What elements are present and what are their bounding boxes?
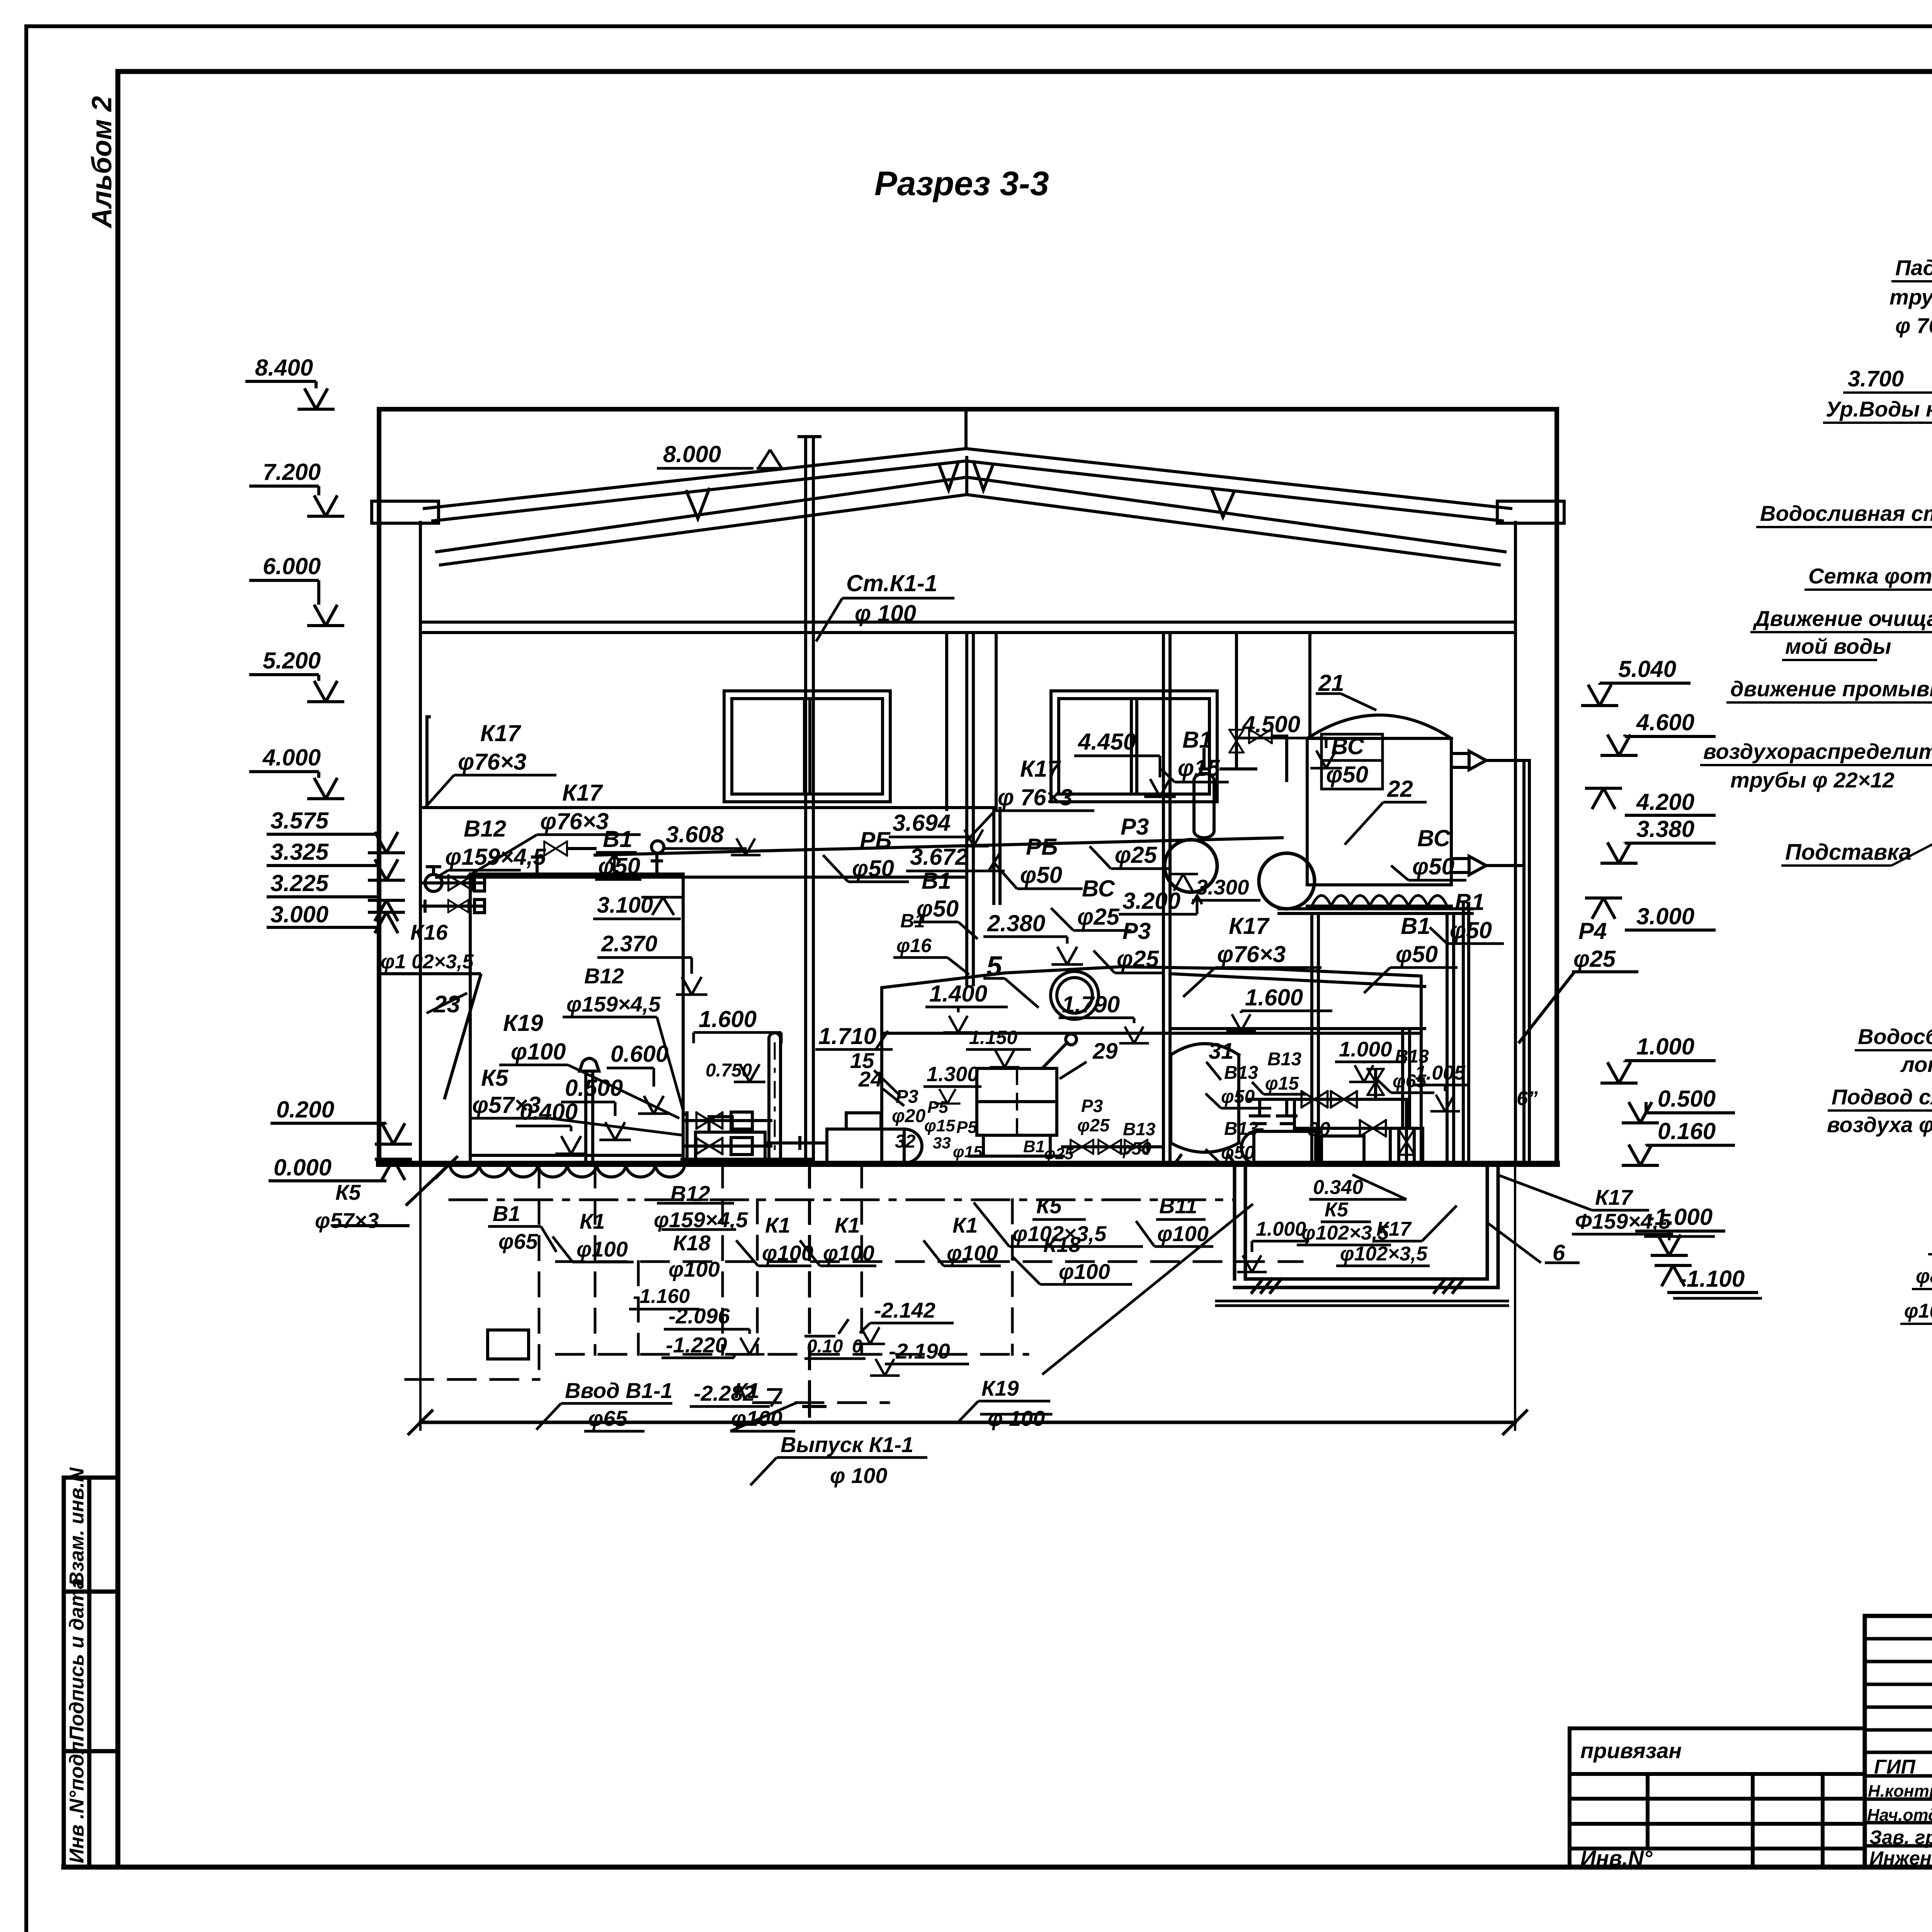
svg-text:воздухораспределительные: воздухораспределительные: [1703, 739, 1932, 764]
svg-text:0.500: 0.500: [1658, 1086, 1716, 1112]
svg-text:φ100: φ100: [1059, 1259, 1110, 1284]
svg-text:5.040: 5.040: [1618, 656, 1676, 682]
svg-text:Сетка φотв.0,5мм: Сетка φотв.0,5мм: [1808, 564, 1932, 588]
svg-text:В1: В1: [1455, 889, 1485, 915]
svg-text:7.200: 7.200: [263, 459, 321, 485]
tank 5 flotation unit: [882, 967, 1421, 1164]
svg-text:К17: К17: [1376, 1218, 1412, 1240]
svg-text:К17: К17: [1020, 756, 1061, 782]
svg-text:3.608: 3.608: [666, 821, 724, 847]
svg-text:-2.142: -2.142: [874, 1298, 935, 1322]
svg-text:В1: В1: [1023, 1137, 1045, 1156]
svg-text:φ25: φ25: [1573, 946, 1616, 972]
svg-text:φ50: φ50: [1119, 1138, 1151, 1158]
svg-text:Водосливная стенка: Водосливная стенка: [1760, 501, 1932, 526]
partition wall center: [967, 633, 973, 985]
box 6 small: [1390, 1128, 1423, 1164]
svg-text:φ100: φ100: [823, 1241, 874, 1265]
main title table outline: [1865, 1616, 1932, 1867]
svg-text:24: 24: [858, 1067, 883, 1091]
pump 30: [1254, 1131, 1316, 1164]
svg-text:Инв .N°подл.: Инв .N°подл.: [66, 1736, 88, 1863]
pump unit left (15/24): [696, 1132, 765, 1159]
svg-text:0.000: 0.000: [274, 1155, 332, 1180]
svg-text:φ65: φ65: [498, 1229, 538, 1253]
svg-text:воздуха φ 57×2,0: воздуха φ 57×2,0: [1827, 1112, 1932, 1137]
B1 pipe: [437, 876, 967, 879]
svg-text:К5: К5: [1325, 1199, 1349, 1221]
svg-text:φ15: φ15: [1265, 1073, 1299, 1094]
svg-text:1.400: 1.400: [929, 981, 987, 1007]
svg-text:0.750: 0.750: [706, 1060, 752, 1081]
svg-text:3.672: 3.672: [910, 844, 968, 870]
svg-text:1.150: 1.150: [969, 1027, 1017, 1048]
svg-text:Р3: Р3: [1081, 1096, 1103, 1116]
left wall valves cluster: [422, 883, 483, 906]
svg-text:В13: В13: [1267, 1049, 1301, 1070]
svg-text:φ 76×3: φ 76×3: [1895, 313, 1932, 338]
svg-text:30: 30: [1308, 1118, 1330, 1141]
svg-text:22: 22: [1387, 776, 1413, 802]
svg-text:φ25: φ25: [1115, 842, 1158, 868]
svg-text:-2.096: -2.096: [668, 1304, 730, 1328]
left stamp strip cells: [64, 1478, 118, 1867]
inner frame top: [118, 69, 1932, 74]
svg-text:φ15: φ15: [1178, 755, 1221, 781]
svg-text:φ50: φ50: [1412, 854, 1454, 879]
svg-text:6”: 6”: [1517, 1087, 1538, 1110]
svg-text:φ100: φ100: [511, 1039, 566, 1065]
svg-text:φ 100: φ 100: [830, 1463, 887, 1488]
svg-text:Р5: Р5: [956, 1118, 977, 1137]
svg-text:3.700: 3.700: [1848, 366, 1904, 391]
svg-text:движение промывной воды: движение промывной воды: [1730, 677, 1932, 701]
floor: [379, 1161, 1557, 1167]
svg-text:φ 76×3: φ 76×3: [998, 784, 1073, 810]
window left: [724, 691, 890, 802]
svg-text:φ50: φ50: [1396, 941, 1438, 967]
svg-text:φ15: φ15: [953, 1143, 983, 1161]
svg-text:φ57×3: φ57×3: [472, 1092, 541, 1118]
stack St.K1-1 pipe: [799, 437, 820, 1164]
tank 23: [470, 874, 683, 1164]
svg-text:φ20: φ20: [892, 1106, 925, 1126]
svg-text:-2.190: -2.190: [889, 1339, 950, 1363]
svg-text:К17: К17: [1595, 1185, 1634, 1209]
eaves cornice left: [372, 501, 439, 523]
svg-text:К1: К1: [835, 1213, 860, 1237]
svg-text:К1: К1: [952, 1213, 978, 1237]
roof beam (ferma) chords: [437, 477, 1505, 552]
svg-text:φ25: φ25: [1117, 946, 1160, 972]
svg-text:Р4: Р4: [1578, 918, 1607, 944]
svg-text:φ50: φ50: [1221, 1087, 1255, 1107]
svg-text:0.10: 0.10: [807, 1336, 843, 1357]
K17 pipe horizontal: [420, 808, 1000, 903]
fragment labels: [1827, 959, 1932, 1322]
svg-text:ГИП: ГИП: [1874, 1756, 1916, 1778]
underground room right: [1235, 1165, 1498, 1287]
4-4 left labels: [1703, 255, 1932, 865]
svg-text:3.325: 3.325: [270, 839, 329, 865]
pilaster right: [1463, 903, 1469, 1164]
svg-text:φ100: φ100: [762, 1241, 813, 1265]
name rows: [1865, 1776, 1932, 1846]
inner frame bottom: [64, 1865, 1932, 1870]
svg-text:К19: К19: [503, 1010, 543, 1036]
svg-text:Р3: Р3: [1121, 814, 1149, 840]
svg-text:РБ: РБ: [860, 827, 892, 853]
svg-text:-1.220: -1.220: [666, 1333, 727, 1357]
svg-text:0.160: 0.160: [1658, 1118, 1716, 1144]
RB sloped pipe: [595, 838, 1282, 855]
building top line: [379, 407, 1557, 412]
svg-text:φ50: φ50: [1450, 917, 1492, 943]
svg-text:Движение очищае-: Движение очищае-: [1753, 606, 1932, 631]
svg-text:К1: К1: [765, 1213, 791, 1237]
svg-text:К1: К1: [580, 1209, 605, 1233]
svg-text:В13: В13: [1224, 1063, 1258, 1083]
svg-text:φ1 02×3,5: φ1 02×3,5: [381, 951, 474, 973]
bottom dimension line: [420, 1164, 1515, 1430]
svg-text:2.370: 2.370: [601, 931, 657, 956]
ground coil hatch left: [450, 1164, 685, 1177]
svg-text:φ102×2,8: φ102×2,8: [1904, 1300, 1932, 1322]
interior columns: [947, 633, 996, 810]
svg-text:К5: К5: [335, 1180, 361, 1204]
small vessel: [1194, 774, 1214, 838]
svg-text:В12: В12: [584, 964, 624, 988]
tank 21 stand: [1279, 909, 1472, 1164]
svg-text:φ 100: φ 100: [855, 600, 916, 626]
svg-text:3.694: 3.694: [893, 810, 951, 836]
B12 riser: [580, 1058, 599, 1164]
svg-text:φ100: φ100: [577, 1237, 628, 1261]
svg-text:φ100: φ100: [1157, 1221, 1209, 1246]
privyazan box: [1570, 1728, 1865, 1867]
svg-text:ВС: ВС: [1331, 733, 1365, 759]
standpipe with cap: [769, 1033, 781, 1164]
svg-text:2.380: 2.380: [987, 910, 1045, 936]
partition wall right room: [1163, 633, 1170, 1164]
vessel 31: [1171, 1044, 1239, 1152]
svg-text:В12: В12: [464, 816, 506, 842]
svg-text:Инжен.: Инжен.: [1869, 1847, 1932, 1869]
svg-text:3.300: 3.300: [1196, 875, 1249, 899]
svg-text:Разрез 3-3: Разрез 3-3: [874, 164, 1049, 202]
svg-text:К1: К1: [734, 1378, 760, 1403]
svg-text:33: 33: [933, 1134, 951, 1152]
svg-text:Подвод сжатого: Подвод сжатого: [1832, 1085, 1932, 1109]
svg-text:1.005: 1.005: [1415, 1062, 1466, 1084]
underground labels: [493, 964, 1671, 1488]
svg-text:мой воды: мой воды: [1785, 634, 1891, 658]
svg-text:φ16: φ16: [896, 935, 932, 956]
svg-text:4.500: 4.500: [1242, 711, 1300, 737]
svg-text:В13: В13: [1123, 1119, 1156, 1139]
svg-text:Выпуск К1-1: Выпуск К1-1: [781, 1432, 913, 1457]
svg-text:Ф159×4,5: Ф159×4,5: [1575, 1209, 1671, 1233]
truss hangers: [687, 489, 709, 519]
svg-text:5.200: 5.200: [263, 648, 321, 673]
svg-text:φ76×3: φ76×3: [1217, 941, 1286, 967]
svg-text:Ввод В1-1: Ввод В1-1: [565, 1378, 673, 1403]
eaves cornice right: [1497, 501, 1564, 523]
svg-text:привязан: привязан: [1580, 1738, 1682, 1763]
svg-text:φ89×2,8: φ89×2,8: [1916, 1265, 1932, 1287]
svg-text:Подставка: Подставка: [1785, 840, 1911, 865]
svg-text:К5: К5: [481, 1065, 509, 1091]
svg-text:φ25: φ25: [1077, 1115, 1110, 1135]
svg-text:трубопровад: трубопровад: [1889, 285, 1932, 309]
svg-text:К16: К16: [410, 920, 448, 944]
svg-text:31: 31: [1209, 1039, 1234, 1064]
svg-text:0: 0: [852, 1336, 862, 1357]
svg-text:φ25: φ25: [1044, 1145, 1074, 1163]
svg-text:Р3: Р3: [896, 1087, 918, 1107]
svg-text:Подпись и дата: Подпись и дата: [66, 1578, 88, 1741]
box 29: [977, 1068, 1057, 1135]
svg-text:φ25: φ25: [1077, 904, 1120, 930]
svg-text:4.000: 4.000: [262, 745, 321, 770]
svg-text:3.575: 3.575: [270, 808, 329, 833]
svg-text:1.600: 1.600: [699, 1006, 757, 1032]
svg-text:К18: К18: [1043, 1232, 1081, 1257]
roof lower chord: [433, 461, 1502, 521]
svg-text:К5: К5: [1036, 1194, 1062, 1218]
svg-text:К19: К19: [981, 1376, 1019, 1400]
svg-text:6.000: 6.000: [263, 553, 321, 579]
svg-text:Взам. инв.N: Взам. инв.N: [66, 1467, 88, 1586]
svg-text:К17: К17: [480, 720, 521, 746]
svg-text:В1: В1: [603, 826, 633, 852]
svg-text:4.200: 4.200: [1636, 789, 1694, 815]
narrow revision rows: [1865, 1639, 1932, 1752]
tank 21 insulation band: [1312, 896, 1447, 906]
svg-text:φ50: φ50: [852, 855, 894, 881]
svg-text:φ76×3: φ76×3: [540, 808, 609, 834]
svg-text:3.200: 3.200: [1122, 888, 1180, 914]
svg-text:32: 32: [895, 1131, 916, 1152]
svg-text:1.790: 1.790: [1062, 992, 1120, 1017]
svg-text:φ15: φ15: [924, 1116, 955, 1135]
svg-text:4.600: 4.600: [1636, 709, 1694, 735]
svg-text:В13: В13: [1224, 1119, 1258, 1139]
svg-text:φ 100: φ 100: [988, 1406, 1045, 1430]
svg-text:РБ: РБ: [1026, 834, 1058, 860]
svg-text:Н.контр.: Н.контр.: [1868, 1782, 1932, 1801]
tank nozzles and pipes: [1451, 751, 1524, 770]
valve assembly over vessel: [1221, 633, 1256, 769]
svg-text:ВС: ВС: [1417, 825, 1451, 851]
svg-text:φ57×3: φ57×3: [315, 1208, 379, 1233]
left wall: [377, 409, 381, 1164]
pressure circles: [1165, 840, 1217, 892]
svg-text:8.400: 8.400: [255, 355, 313, 381]
svg-text:-1.100: -1.100: [1679, 1266, 1745, 1292]
right wall: [1554, 409, 1559, 1164]
svg-text:Альбом 2: Альбом 2: [87, 96, 117, 229]
B13 piping cluster: [1248, 1070, 1406, 1164]
svg-text:φ65: φ65: [588, 1406, 628, 1430]
ceiling slab: [420, 622, 1515, 633]
svg-text:В1: В1: [1182, 727, 1212, 753]
svg-text:φ50: φ50: [1020, 862, 1062, 888]
svg-text:8.000: 8.000: [663, 441, 721, 467]
svg-text:3.000: 3.000: [1636, 903, 1694, 929]
svg-text:Падающий: Падающий: [1895, 255, 1932, 280]
valves row under tank5: [1063, 1145, 1161, 1148]
svg-text:0.200: 0.200: [276, 1097, 334, 1122]
svg-text:В1: В1: [493, 1201, 520, 1226]
svg-text:трубы φ 22×12: трубы φ 22×12: [1730, 768, 1895, 792]
svg-text:3.380: 3.380: [1636, 816, 1694, 842]
svg-text:1.000: 1.000: [1256, 1218, 1306, 1240]
svg-text:Зав. гр.: Зав. гр.: [1869, 1827, 1932, 1848]
svg-text:Ст.К1-1: Ст.К1-1: [846, 570, 937, 596]
window right: [1051, 691, 1217, 802]
small buried box: [488, 1330, 529, 1359]
tank 21: [1307, 715, 1451, 885]
svg-text:1.600: 1.600: [1245, 985, 1303, 1010]
inner frame left: [116, 71, 121, 1867]
svg-text:К18: К18: [673, 1231, 711, 1255]
svg-text:Инв.N°: Инв.N°: [1580, 1846, 1653, 1870]
platform line 1.600: [1170, 1027, 1425, 1030]
svg-text:Водосборный: Водосборный: [1858, 1024, 1932, 1049]
svg-text:φ100: φ100: [947, 1241, 998, 1265]
svg-text:φ50: φ50: [1221, 1143, 1255, 1163]
svg-text:Ур.Воды нижний: Ур.Воды нижний: [1826, 397, 1932, 421]
sloped pipe right room: [1170, 974, 1425, 986]
leaders / underlines for labels: [425, 450, 1504, 1164]
svg-text:4.450: 4.450: [1078, 729, 1136, 755]
svg-text:1.300: 1.300: [927, 1063, 979, 1086]
svg-text:0.340: 0.340: [1313, 1176, 1363, 1199]
svg-text:φ50: φ50: [598, 853, 640, 879]
svg-text:1.710: 1.710: [818, 1023, 876, 1049]
TITLE BLOCK: [1570, 1616, 1932, 1867]
svg-text:φ159×4,5: φ159×4,5: [445, 844, 546, 870]
underground dashed mains: [450, 1199, 1235, 1201]
svg-text:φ159×4,5: φ159×4,5: [566, 992, 661, 1016]
svg-text:В11: В11: [1159, 1194, 1197, 1218]
svg-text:3.225: 3.225: [270, 870, 329, 896]
svg-text:В1: В1: [1401, 913, 1430, 939]
svg-text:3.000: 3.000: [270, 901, 328, 927]
roof upper chord: [424, 449, 1511, 509]
svg-text:лоток: лоток: [1900, 1052, 1932, 1077]
4-4 leaders: [1700, 281, 1932, 866]
svg-text:1.000: 1.000: [1339, 1037, 1392, 1061]
svg-text:ВС: ВС: [1082, 876, 1116, 901]
apex post: [966, 409, 967, 494]
svg-text:1.000: 1.000: [1636, 1034, 1694, 1060]
svg-text:21: 21: [1318, 670, 1344, 696]
K19 leader: [981, 1205, 1252, 1414]
svg-text:φ76×3: φ76×3: [458, 749, 526, 775]
svg-text:φ50: φ50: [1326, 762, 1368, 787]
svg-text:Нач.отд.: Нач.отд.: [1867, 1806, 1932, 1825]
svg-text:0.600: 0.600: [611, 1041, 668, 1067]
svg-text:29: 29: [1092, 1039, 1118, 1064]
svg-text:К17: К17: [562, 780, 603, 806]
svg-text:К17: К17: [1229, 913, 1270, 939]
svg-text:φ100: φ100: [668, 1257, 720, 1281]
